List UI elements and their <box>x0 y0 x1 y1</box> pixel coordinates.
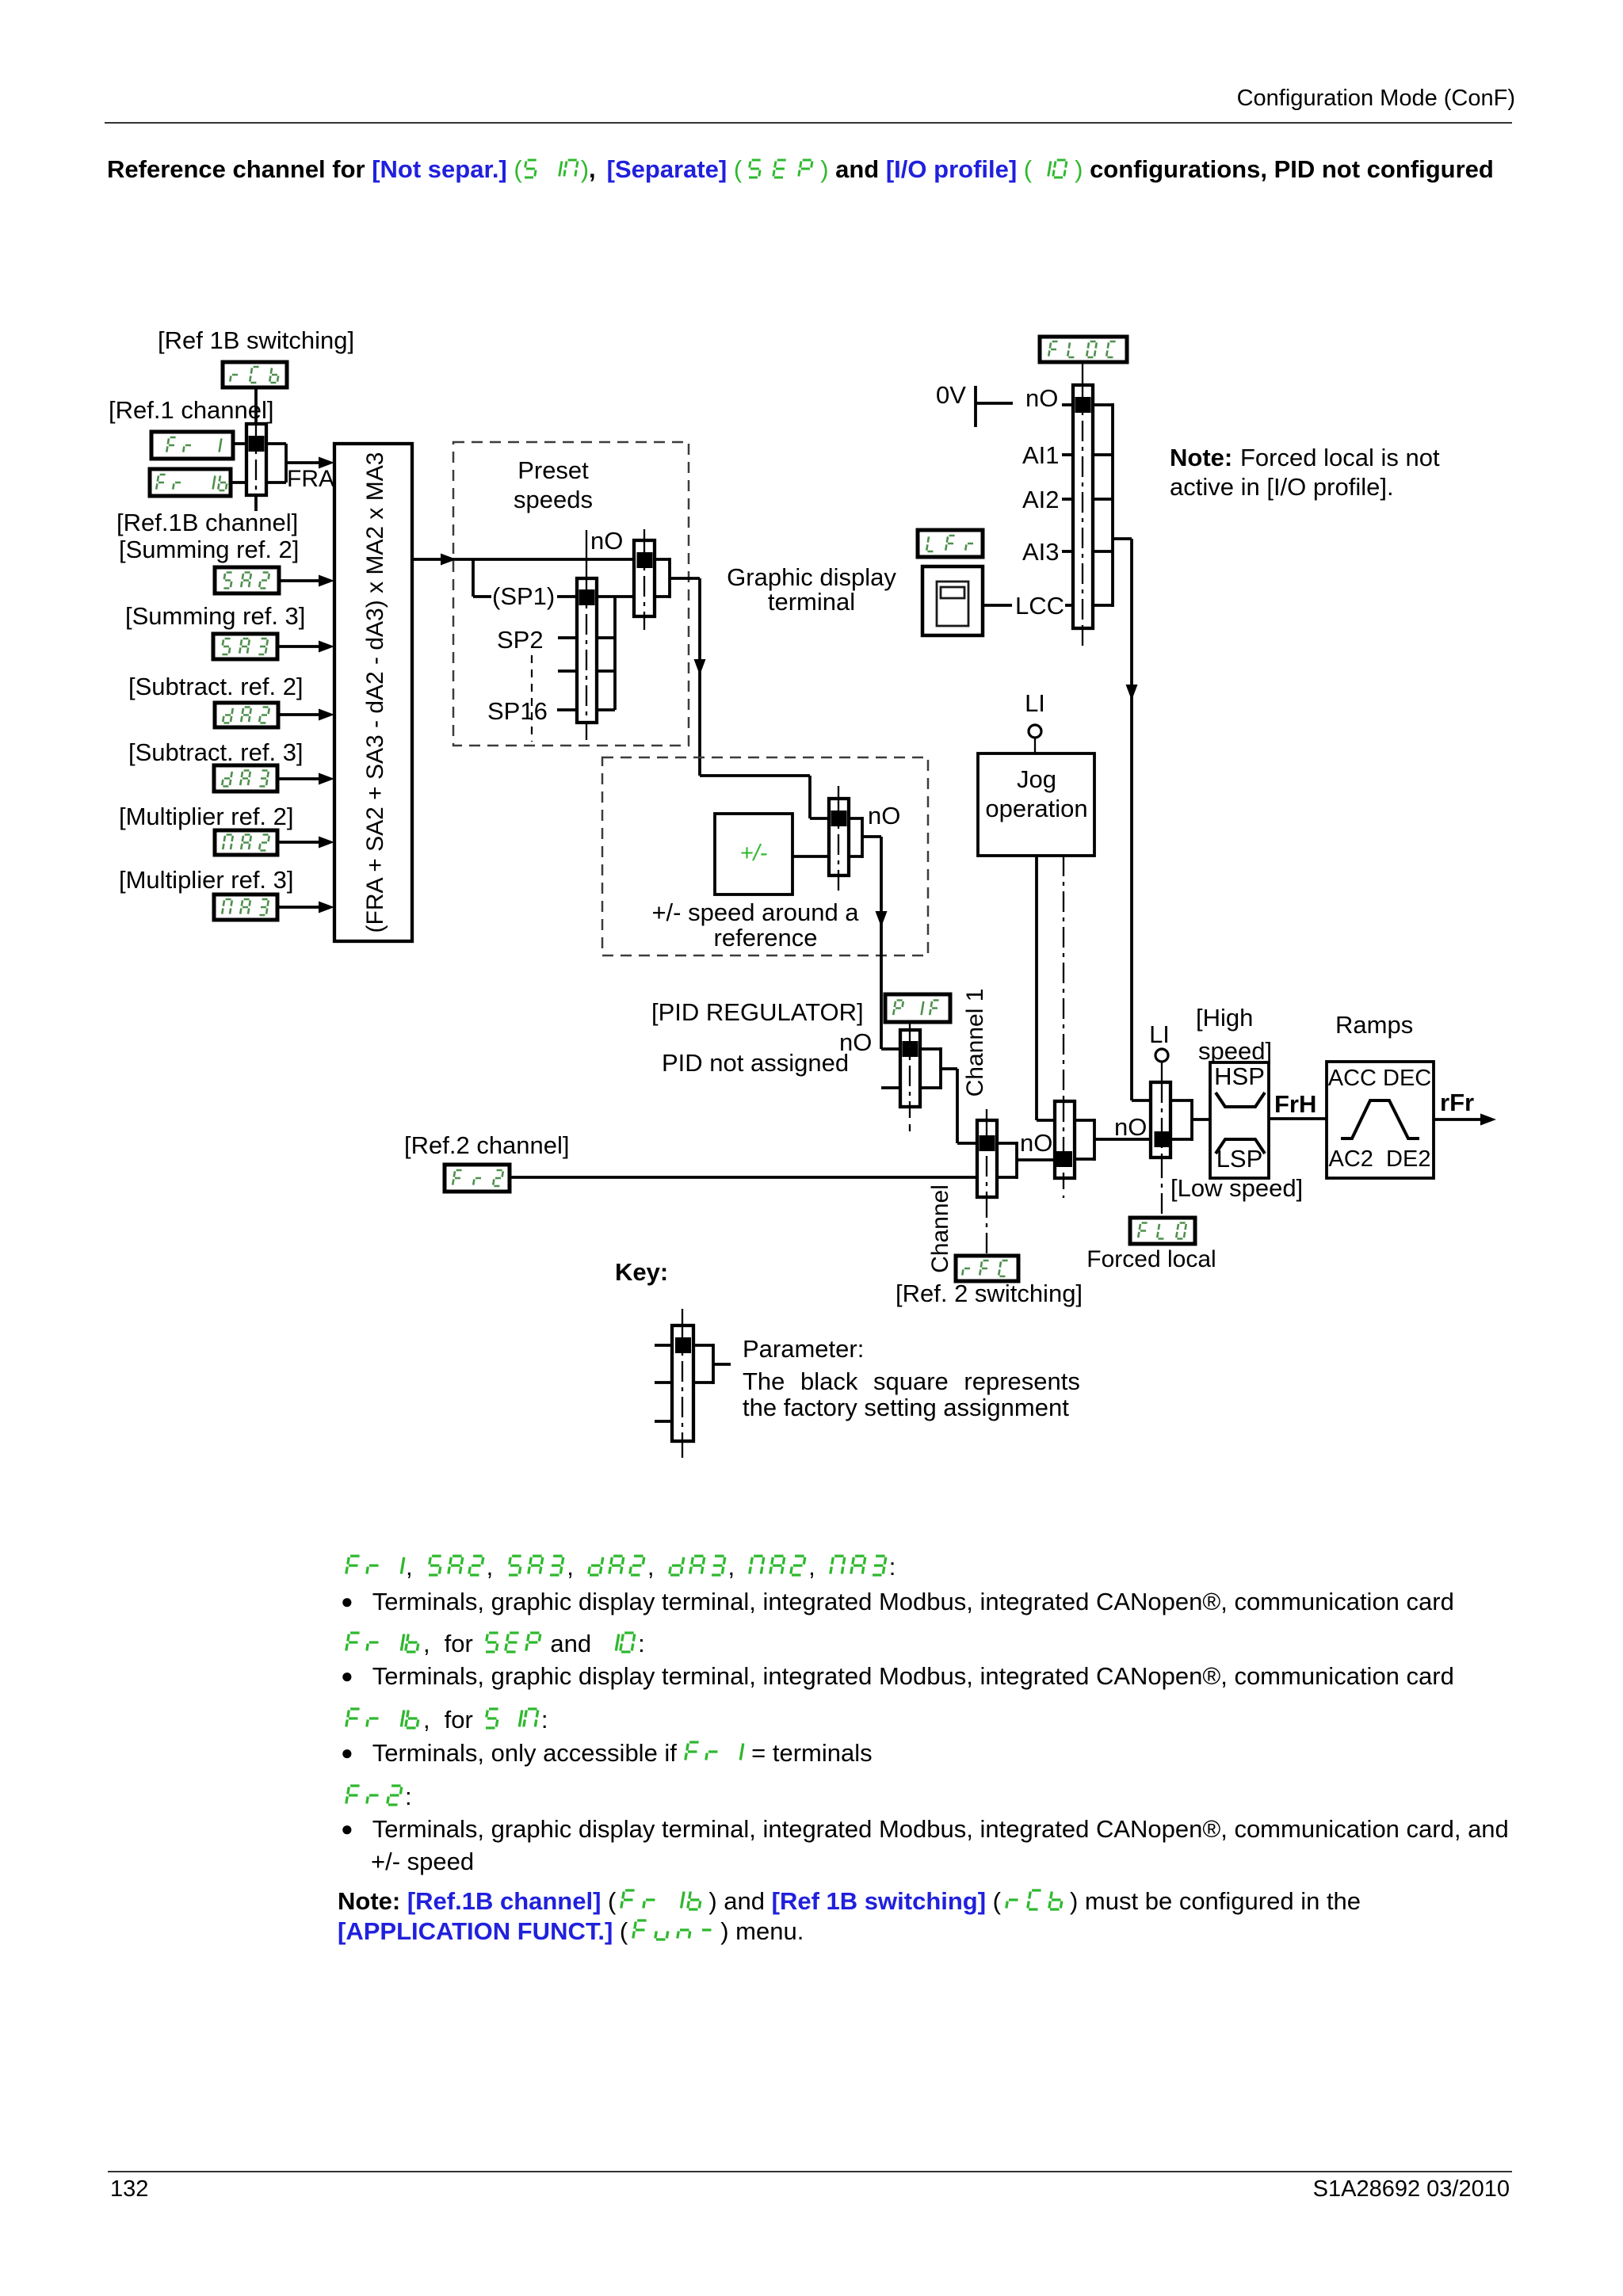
wire Fr1 to SW1 <box>233 442 246 445</box>
wire PIF output <box>941 1067 957 1070</box>
wire jog box left output down <box>1035 856 1038 1120</box>
svg-text:The black square represents: The black square represents <box>743 1367 1080 1395</box>
svg-text:Channel: Channel <box>927 1184 953 1273</box>
wire down to +/- switch input <box>808 776 811 818</box>
wire dA2 to summing box <box>278 713 320 716</box>
switch channel selector rFC <box>977 1120 997 1197</box>
svg-text:[Ref. 2 switching]: [Ref. 2 switching] <box>896 1280 1083 1307</box>
wire upper bracket vertical <box>668 558 671 598</box>
parameter box rFC <box>956 1256 1018 1281</box>
wire key output <box>713 1363 731 1366</box>
dashed box Preset speeds <box>453 442 689 746</box>
switch PIF selector <box>900 1030 920 1107</box>
wire key bracket vertical <box>712 1344 715 1384</box>
factory setting square forced local switch <box>1155 1131 1170 1147</box>
centerline preset tall switch <box>586 578 587 723</box>
centerline PIF above <box>909 1022 911 1030</box>
wire into +/- switch <box>810 817 829 820</box>
svg-text:Graphic display: Graphic display <box>727 563 896 591</box>
svg-text:Note:: Note: <box>1170 444 1232 471</box>
arrowhead dA2 <box>319 709 334 721</box>
wire PIF bracket stub top <box>920 1047 941 1051</box>
wire SW1 bracket bottom <box>266 481 286 484</box>
wire FLOC into forced local switch <box>1132 1099 1151 1102</box>
svg-text:nO: nO <box>1114 1113 1147 1141</box>
wire preset switch out to upper switch <box>597 595 634 598</box>
svg-text:PID not assigned: PID not assigned <box>662 1049 849 1077</box>
wire +/- bracket stub bottom <box>849 855 862 858</box>
switch key example <box>672 1325 693 1441</box>
parameter box dA3 <box>214 765 277 791</box>
svg-text:[Ref.1B channel]: [Ref.1B channel] <box>116 509 298 536</box>
svg-text:[Subtract. ref. 2]: [Subtract. ref. 2] <box>128 673 304 700</box>
svg-text:LI: LI <box>1025 689 1045 717</box>
wire FrH to ramps <box>1269 1117 1327 1120</box>
svg-text:ACC DEC: ACC DEC <box>1328 1066 1432 1091</box>
terminal circle LI forced local <box>1155 1049 1168 1062</box>
parameter box LFr <box>918 530 983 557</box>
svg-text:[PID REGULATOR]: [PID REGULATOR] <box>651 998 864 1026</box>
centerline jog switch <box>1063 1101 1064 1178</box>
svg-text:[Multiplier ref. 2]: [Multiplier ref. 2] <box>119 803 294 830</box>
wire MA2 to summing box <box>277 841 320 844</box>
svg-text:nO: nO <box>1025 384 1058 412</box>
wire Fr2 to channel switch <box>510 1176 977 1179</box>
svg-text:[Summing ref. 2]: [Summing ref. 2] <box>119 536 299 563</box>
svg-text:(SP1): (SP1) <box>492 582 555 610</box>
svg-text:nO: nO <box>868 802 900 830</box>
svg-text:LCC: LCC <box>1015 592 1064 620</box>
wire SP1 into preset switch <box>557 595 577 598</box>
centerline +/- switch below <box>838 875 839 891</box>
centerline SW1 <box>255 424 257 495</box>
wire key input 1 <box>655 1344 672 1347</box>
wire jog output to forced local switch <box>1094 1138 1151 1141</box>
wire rFr output <box>1434 1118 1481 1121</box>
factory setting square PIF switch <box>903 1041 918 1057</box>
factory setting square key switch <box>675 1337 691 1353</box>
wire channel bracket stub top <box>997 1142 1017 1145</box>
wire SW1 stem down <box>254 495 258 511</box>
wire branch to SP1 label <box>473 595 491 598</box>
centerline +/- switch above <box>838 786 839 799</box>
block +/- speed <box>715 814 792 894</box>
factory setting square SW1 <box>249 436 265 452</box>
centerline LI to switch <box>1161 1061 1163 1082</box>
svg-text:terminal: terminal <box>768 588 855 616</box>
svg-text:[Ref.2 channel]: [Ref.2 channel] <box>404 1131 570 1159</box>
centerline +/- switch <box>838 799 839 875</box>
svg-text:[Ref 1B switching]: [Ref 1B switching] <box>158 326 354 354</box>
centerline channel switch to rFC box <box>986 1197 987 1256</box>
wire key bracket stub bottom <box>693 1381 713 1384</box>
svg-text:operation: operation <box>985 795 1087 822</box>
factory setting square preset nO switch <box>637 552 653 568</box>
parameter box SA2 <box>215 567 279 593</box>
wire upper bracket stub SP <box>655 595 670 598</box>
parameter box MA3 <box>214 894 277 920</box>
centerline key switch <box>682 1325 683 1441</box>
centerline forced local switch <box>1161 1082 1163 1158</box>
arrowhead MA2 <box>319 837 334 849</box>
svg-text:Jog: Jog <box>1017 765 1056 793</box>
svg-text:AI3: AI3 <box>1022 538 1060 566</box>
wire FLOC bracket stub nO <box>1093 403 1113 406</box>
svg-text:SP2: SP2 <box>497 626 544 654</box>
svg-text:Key:: Key: <box>615 1258 668 1286</box>
wire jog into switch top input <box>1037 1119 1055 1122</box>
factory setting square channel switch <box>980 1135 995 1151</box>
block Ramps <box>1327 1062 1434 1178</box>
wire preset output right <box>670 577 700 580</box>
svg-text:[Summing ref. 3]: [Summing ref. 3] <box>125 602 305 630</box>
parameter box Fr1b <box>150 469 231 496</box>
svg-text:speed]: speed] <box>1198 1037 1272 1065</box>
svg-text:nO: nO <box>590 527 623 555</box>
centerline preset upper switch above <box>643 529 645 540</box>
arrowhead down to +/- block <box>694 659 706 675</box>
wire preset bracket vertical <box>613 597 617 710</box>
parameter box rCb <box>223 362 287 387</box>
wire FLOC bracket stub AI3 <box>1093 550 1113 553</box>
wire FLOC bracket stub LCC <box>1093 604 1113 607</box>
switch preset nO selector <box>634 540 655 616</box>
svg-text:Ramps: Ramps <box>1335 1011 1413 1039</box>
wire key input 2 <box>655 1381 672 1384</box>
parameter box SA3 <box>213 634 277 659</box>
wire into +/- block right <box>700 774 810 777</box>
block HSP LSP limiter <box>1210 1062 1269 1178</box>
wire PIF bracket vertical <box>939 1047 942 1089</box>
svg-text:AI2: AI2 <box>1022 486 1060 513</box>
svg-text:FRA: FRA <box>287 466 334 492</box>
svg-text:Forced local: Forced local <box>1086 1246 1216 1272</box>
wire branch down to SP1 <box>472 559 475 597</box>
wire upper bracket stub nO <box>655 558 670 561</box>
parameter box FLOC <box>1040 337 1127 362</box>
svg-text:+/- speed around a: +/- speed around a <box>651 898 859 926</box>
svg-text:[Multiplier ref. 3]: [Multiplier ref. 3] <box>119 866 294 894</box>
centerline key switch above <box>682 1309 683 1325</box>
dashed continuation line SP2..SP16 <box>531 655 533 742</box>
wire into PIF switch <box>881 1047 900 1051</box>
centerline preset tall switch below <box>586 723 587 740</box>
centerline key switch below <box>682 1441 683 1458</box>
dashed box +/- speed around a reference <box>602 757 928 955</box>
centerline preset upper switch below <box>643 616 645 630</box>
centerline jog switch above <box>1063 856 1064 1101</box>
arrowhead dA3 <box>319 773 334 785</box>
terminal circle LI jog <box>1029 725 1041 738</box>
wire AI1 stub <box>1062 453 1073 456</box>
centerline FLOC below <box>1082 628 1083 646</box>
wire FLOC bracket stub AI1 <box>1093 453 1113 456</box>
block Jog operation <box>978 753 1094 856</box>
centerline channel switch above <box>986 1109 987 1120</box>
wire forced local bracket vertical <box>1190 1099 1193 1141</box>
wire LCC label to switch <box>1065 604 1073 607</box>
svg-text:speeds: speeds <box>514 486 593 513</box>
svg-text:FrH: FrH <box>1274 1090 1316 1118</box>
svg-text:SP16: SP16 <box>487 697 548 725</box>
wire summing box output nO line <box>412 558 634 561</box>
wire preset output down <box>698 578 701 776</box>
factory setting square FLOC switch <box>1075 397 1091 413</box>
wire terminal to LCC label <box>983 604 1012 607</box>
svg-text:the factory setting assignment: the factory setting assignment <box>743 1394 1069 1421</box>
wire AI3 stub <box>1062 550 1073 553</box>
switch forced local selector <box>1151 1082 1170 1158</box>
svg-text:Preset: Preset <box>517 456 589 484</box>
wire PID stub <box>881 1086 900 1089</box>
wire key bracket stub top <box>693 1344 713 1347</box>
wire +/- bracket vertical <box>861 817 864 858</box>
wire FLOC bracket stub AI2 <box>1093 498 1113 501</box>
LSP clamp symbol <box>1216 1139 1265 1154</box>
parameter box FLO <box>1130 1218 1195 1244</box>
wire LI to jog box <box>1034 737 1036 753</box>
switch SW1 ref1 channel selector <box>246 424 266 495</box>
wire SW1 bracket vertical <box>285 444 288 482</box>
svg-text:Parameter:: Parameter: <box>743 1335 864 1363</box>
arrowhead rFr <box>1480 1114 1496 1126</box>
wire PIF output down <box>956 1069 959 1143</box>
centerline PIF switch <box>909 1030 911 1107</box>
factory setting square +/- switch <box>831 810 847 826</box>
centerline FLOC above <box>1082 362 1083 385</box>
centerline FLOC switch <box>1082 385 1083 628</box>
svg-text:Channel 1: Channel 1 <box>962 989 988 1097</box>
wire FLOC output down to forced local <box>1130 539 1133 1100</box>
wire jog bracket stub bottom <box>1075 1158 1094 1161</box>
parameter box Fr1 <box>151 432 233 459</box>
wire SW1 bracket top <box>266 442 286 445</box>
wire FLOC bracket vertical <box>1111 403 1114 607</box>
wire +/- bracket stub top <box>849 817 862 820</box>
wire SA3 to summing box <box>277 645 320 648</box>
switch +/- selector <box>829 799 849 875</box>
svg-text:[Low speed]: [Low speed] <box>1170 1174 1303 1202</box>
arrowhead MA3 <box>319 902 334 913</box>
wire SA2 to summing box <box>279 579 320 582</box>
wire FRA output <box>286 461 320 464</box>
wire jog bracket stub top <box>1075 1119 1094 1122</box>
parameter box MA2 <box>215 830 277 855</box>
wire channel bracket vertical <box>1015 1142 1018 1179</box>
switch preset speeds selector <box>577 578 597 723</box>
svg-text:[High: [High <box>1196 1004 1253 1032</box>
wire MA3 to summing box <box>277 906 320 909</box>
wire nO stub FLOC <box>1062 403 1073 406</box>
wire jog bracket vertical <box>1093 1119 1096 1161</box>
svg-text:HSP: HSP <box>1214 1062 1265 1090</box>
svg-text:[Subtract. ref. 3]: [Subtract. ref. 3] <box>128 738 304 766</box>
svg-text:+/-: +/- <box>740 841 768 866</box>
switch jog selector <box>1055 1101 1075 1178</box>
svg-text:LI: LI <box>1149 1020 1170 1048</box>
switch FLOC selector <box>1073 385 1093 628</box>
wire preset bracket stub mid <box>597 669 615 673</box>
centerline channel switch <box>986 1120 987 1197</box>
wire stub between SP2 and SP16 <box>558 669 577 673</box>
svg-text:AI1: AI1 <box>1022 441 1060 469</box>
svg-text:(FRA + SA2 + SA3 - dA2 - dA3): (FRA + SA2 + SA3 - dA2 - dA3) x MA2 x MA… <box>362 452 388 933</box>
centerline PIF below <box>909 1107 911 1131</box>
arrowhead SA2 <box>319 575 334 587</box>
svg-text:[Ref.1 channel]: [Ref.1 channel] <box>109 396 274 424</box>
summing block (FRA + SA2 + SA3 - dA2 - dA3) x MA2 x MA3 <box>334 444 412 941</box>
wire rCb to switch SW1 <box>254 387 258 424</box>
svg-text:0V: 0V <box>936 381 966 409</box>
wire channel bracket stub bottom <box>997 1176 1017 1179</box>
arrowhead SA3 <box>319 641 334 653</box>
wire +/- block to switch <box>792 855 829 858</box>
arrowhead into preset speeds box <box>441 554 456 566</box>
wire 0V tick vertical <box>974 386 977 427</box>
svg-text:reference: reference <box>714 924 818 952</box>
wire AI2 stub <box>1062 498 1073 501</box>
wire preset bracket stub SP16 <box>597 708 615 711</box>
wire +/- output down to PIF switch <box>880 837 883 1049</box>
HSP clamp symbol <box>1216 1093 1265 1107</box>
arrowhead FRA into summing box <box>319 457 334 469</box>
parameter box Fr2 <box>445 1165 510 1192</box>
centerline forced local to FLO box <box>1161 1158 1163 1218</box>
factory setting square jog switch <box>1056 1151 1072 1167</box>
svg-text:AC2 DE2: AC2 DE2 <box>1329 1146 1431 1172</box>
graphic display terminal icon <box>922 566 983 635</box>
svg-text:active in [I/O profile].: active in [I/O profile]. <box>1170 473 1394 501</box>
wire SP16 stub <box>557 708 577 711</box>
wire forced local bracket stub top <box>1170 1099 1192 1102</box>
parameter box dA2 <box>215 703 278 727</box>
factory setting square preset switch <box>579 589 595 605</box>
wire Fr1b to SW1 <box>231 481 246 484</box>
wire dA3 to summing box <box>277 777 320 780</box>
wire PIF bracket stub bottom <box>920 1086 941 1089</box>
wire forced local output to HSP <box>1192 1118 1210 1121</box>
wire +/- output <box>862 835 881 838</box>
wire key input 3 <box>655 1420 672 1423</box>
svg-text:nO: nO <box>1020 1129 1052 1157</box>
centerline jog switch below <box>1063 1178 1064 1198</box>
svg-text:LSP: LSP <box>1216 1145 1263 1173</box>
wire FLOC output <box>1113 537 1132 540</box>
wire into channel switch <box>957 1142 977 1145</box>
wire channel output to jog switch <box>1017 1158 1055 1161</box>
svg-text:Forced local is not: Forced local is not <box>1240 444 1440 471</box>
arrowhead down to PIF <box>876 911 888 927</box>
wire forced local bracket stub bottom <box>1170 1138 1192 1141</box>
wire preset bracket stub SP2 <box>597 636 615 639</box>
parameter box PIF <box>885 994 950 1022</box>
centerline preset upper switch <box>643 540 645 616</box>
centerline preset tall switch above <box>586 530 587 578</box>
arrowhead FLOC down <box>1126 685 1138 700</box>
wire SP2 stub <box>558 636 577 639</box>
ramp symbol <box>1341 1100 1419 1138</box>
wire 0V tick horizontal <box>976 402 1013 405</box>
svg-text:rFr: rFr <box>1440 1089 1474 1116</box>
